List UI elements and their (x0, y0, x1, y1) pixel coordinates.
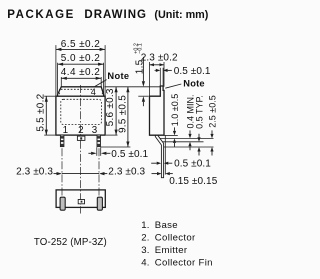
center line (front) (80, 85, 82, 141)
lead pin 3 (97, 135, 101, 147)
extension line 5.0 left (57, 63, 59, 95)
lead center line 3 (98, 148, 100, 209)
svg-text:5.0 ±0.2: 5.0 ±0.2 (61, 53, 100, 64)
svg-text:PACKAGEDRAWING(Unit: mm): PACKAGEDRAWING(Unit: mm) (7, 9, 208, 21)
svg-text:0.5 ±0.1: 0.5 ±0.1 (111, 149, 148, 160)
dim 1.5 +0.2/-0.1 fin protrusion (138, 95, 148, 97)
svg-text:2: 2 (78, 125, 84, 136)
package body (front view) (56, 96, 105, 135)
dim 0.5 +/-0.1 lead width (front) (96, 147, 98, 156)
fin dashed detail (61, 88, 93, 90)
extension line 5.5 bottom (44, 134, 55, 136)
pin 2 stub (77, 136, 85, 140)
svg-text:Collector: Collector (155, 233, 196, 244)
svg-text:2.3 ±0.2: 2.3 ±0.2 (141, 53, 178, 64)
svg-text:9.5 ±0.5: 9.5 ±0.5 (117, 95, 128, 133)
lead pin 1 (60, 135, 64, 147)
dashed die pad outline (61, 99, 102, 124)
svg-text:−0.1: −0.1 (138, 43, 144, 54)
extension line fin top (shared datum) (104, 86, 160, 88)
dim 2.5 +/-0.5 (210, 134, 213, 139)
dim 0.5 +/-0.1 fin thickness (top) (159, 68, 161, 87)
bottom view lead 3 (97, 197, 102, 210)
extension line 5.0 right (103, 63, 105, 95)
package center line lower (80, 141, 82, 214)
extension line 6.5 right (104, 45, 106, 96)
ext line body bottom (side) (165, 134, 178, 136)
extension line body bottom right (106, 134, 118, 136)
svg-text:2.5 ±0.5: 2.5 ±0.5 (208, 95, 218, 127)
dim 5.6 +/-0.3 (115, 87, 117, 135)
extension line 4.4 right (100, 77, 102, 87)
svg-text:1.5: 1.5 (134, 59, 145, 74)
extension line lead tips (101, 146, 130, 148)
ext line bend end (162, 141, 203, 143)
svg-text:4.4 ±0.2: 4.4 ±0.2 (61, 67, 100, 78)
svg-text:3.: 3. (141, 245, 149, 256)
svg-text:2.: 2. (141, 233, 149, 244)
ext line lead exit (160, 137, 214, 139)
dim 0.5 TYP. (197, 137, 200, 142)
svg-text:Collector Fin: Collector Fin (155, 258, 213, 269)
note leader (side) (165, 84, 181, 88)
dim 1.0 +/-0.5 (173, 131, 176, 136)
bottom view pin 2 stub (78, 200, 84, 204)
svg-text:5.6 ±0.3: 5.6 ±0.3 (105, 88, 116, 126)
dim 0.5 +/-0.1 lead thickness (side bottom) (157, 162, 162, 165)
lead center line 1 (61, 148, 63, 209)
svg-text:Emitter: Emitter (155, 245, 188, 256)
svg-text:0.5 ±0.1: 0.5 ±0.1 (174, 66, 211, 77)
collector fin outline (front) (58, 87, 104, 96)
extension line 5.5 top (44, 95, 55, 97)
dim 0.4 MIN. (188, 134, 191, 139)
note leader (front) (95, 80, 107, 87)
svg-text:3: 3 (92, 125, 98, 136)
svg-text:0.15 ±0.15: 0.15 ±0.15 (169, 176, 218, 187)
svg-text:4.: 4. (141, 258, 149, 269)
svg-text:6.5 ±0.2: 6.5 ±0.2 (61, 39, 100, 50)
dim 2.3 +/-0.3 lead pitch right (62, 173, 99, 175)
svg-text:1.0 ±0.5: 1.0 ±0.5 (170, 94, 180, 126)
svg-text:2.3 ±0.3: 2.3 ±0.3 (108, 167, 145, 178)
dim 0.15 +/-0.15 lead back offset (157, 172, 162, 175)
svg-text:1: 1 (63, 125, 69, 136)
lead (side view) (155, 135, 163, 178)
extension line 4.4 left (60, 77, 62, 87)
bottom view lead 1 (60, 197, 65, 210)
svg-text:5.5 ±0.2: 5.5 ±0.2 (36, 93, 47, 131)
svg-text:Note: Note (183, 79, 204, 89)
mounting plane extension (164, 136, 166, 175)
side view body with tab (150, 86, 165, 135)
bottom view outline (56, 190, 105, 208)
svg-text:0.5 TYP.: 0.5 TYP. (195, 95, 205, 129)
svg-text:0.5 ±0.1: 0.5 ±0.1 (174, 159, 211, 170)
svg-text:Base: Base (155, 220, 178, 231)
svg-text:1.: 1. (141, 220, 149, 231)
extension line 6.5 left (55, 45, 57, 96)
extension 2.3 right (163, 62, 165, 87)
svg-text:TO-252 (MP-3Z): TO-252 (MP-3Z) (34, 237, 107, 248)
ext line foot top (164, 146, 214, 148)
dim 9.5 +/-0.5 (127, 87, 129, 147)
svg-text:Note: Note (107, 71, 129, 81)
extension 2.3 left (149, 62, 151, 96)
svg-text:2.3 ±0.3: 2.3 ±0.3 (16, 167, 53, 178)
